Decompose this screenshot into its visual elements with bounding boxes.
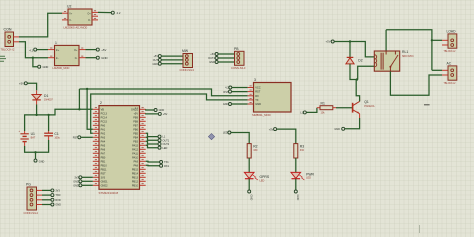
svg-text:+5V: +5V <box>326 40 331 44</box>
junction D2 branch <box>349 40 351 42</box>
svg-text:PB5: PB5 <box>133 132 138 135</box>
wire +5V terminal to D1 anode <box>27 83 36 90</box>
wire up to relay coil bottom <box>358 66 375 79</box>
svg-text:V-: V- <box>69 20 71 22</box>
wire LED terminal to R2 <box>231 133 249 144</box>
svg-text:VB: VB <box>101 108 105 111</box>
svg-text:1: 1 <box>55 41 57 45</box>
svg-text:PA15: PA15 <box>132 144 139 147</box>
svg-text:PA7: PA7 <box>101 152 106 155</box>
terminal OUT2 <box>158 143 161 146</box>
wire to AC pin1 <box>432 69 442 71</box>
svg-text:PB3: PB3 <box>133 140 138 143</box>
wire RST terminal to SIM800L <box>232 91 248 93</box>
svg-text:PB13: PB13 <box>132 176 139 179</box>
terminal GND at Q1 emitter <box>342 127 345 130</box>
svg-text:+5V: +5V <box>153 55 158 58</box>
junction battery node <box>35 114 37 116</box>
resistor R1 10k <box>317 107 320 109</box>
svg-text:GND: GND <box>209 61 215 64</box>
wire PG pin to RXD terminal <box>42 199 51 201</box>
svg-text:RXD: RXD <box>55 199 60 202</box>
wire GND terminal to SIM800L <box>232 103 248 105</box>
svg-text:GND1: GND1 <box>101 180 109 183</box>
svg-text:GND: GND <box>43 65 49 69</box>
wire PG pin to TXD terminal <box>42 194 51 196</box>
wire up from VB net to UART loop <box>78 89 80 109</box>
wire +5V rail to relay coil top <box>334 42 374 57</box>
wire node to C1 and MCU VB <box>37 109 93 115</box>
svg-text:+5V: +5V <box>133 112 138 115</box>
svg-text:TX1: TX1 <box>164 161 169 164</box>
no-connect dash <box>424 104 430 106</box>
terminal TX1 <box>160 161 163 164</box>
svg-text:PB: PB <box>234 47 239 51</box>
svg-text:GND: GND <box>223 103 229 106</box>
microcontroller U3 STM32F103C8 <box>93 108 99 110</box>
wire MCU PA9 to SIM800L TX <box>91 94 248 133</box>
svg-text:+5V: +5V <box>210 53 215 56</box>
junction C1 branch <box>47 114 49 116</box>
terminal +5V regulator output <box>96 48 99 51</box>
svg-text:+5V: +5V <box>269 128 274 131</box>
svg-text:3V3: 3V3 <box>101 176 106 179</box>
svg-text:LM2596_MOD: LM2596_MOD <box>53 66 70 70</box>
svg-text:3V3: 3V3 <box>55 190 60 193</box>
svg-text:PA1: PA1 <box>101 128 106 131</box>
svg-text:PB14: PB14 <box>132 172 139 175</box>
wire GND terminal to MCU <box>82 184 93 186</box>
svg-text:U2: U2 <box>67 4 71 8</box>
svg-text:PA8: PA8 <box>133 164 138 167</box>
svg-text:D2: D2 <box>358 59 362 63</box>
terminal GND regulator output <box>96 56 99 59</box>
svg-text:RL1: RL1 <box>402 50 408 54</box>
svg-text:OUT1: OUT1 <box>163 139 170 142</box>
wire CON pin2 to regulator In- <box>19 42 48 58</box>
svg-text:BAT: BAT <box>31 137 36 140</box>
terminal OUT1 <box>158 139 161 142</box>
svg-text:PB1: PB1 <box>101 160 106 163</box>
svg-text:PB4: PB4 <box>133 136 138 139</box>
svg-text:PB15: PB15 <box>132 168 139 171</box>
svg-text:LED: LED <box>306 177 311 180</box>
wire MCU to LED terminal <box>146 145 158 147</box>
wire MCU to TX1 terminal <box>146 160 160 163</box>
svg-text:GND: GND <box>152 63 158 66</box>
svg-text:PB10: PB10 <box>132 184 139 187</box>
svg-text:PA5: PA5 <box>101 144 106 147</box>
svg-text:GND: GND <box>101 56 107 60</box>
relay RL1 SRD-5VDC <box>374 51 399 71</box>
transistor Q1 PN2222A <box>352 103 354 113</box>
svg-text:TBLOCK-I2: TBLOCK-I2 <box>444 83 457 85</box>
svg-text:PB8: PB8 <box>133 120 138 123</box>
wire junction down to GND terminal <box>33 58 38 67</box>
wire PG pin to GND terminal <box>42 204 51 206</box>
LED PWR <box>291 172 301 178</box>
svg-text:TX: TX <box>255 98 259 102</box>
terminal LED <box>158 146 161 149</box>
wire D2 anode Z-route <box>350 64 358 80</box>
battery U1 <box>24 131 26 134</box>
wire GPRS LED to GND terminal <box>248 179 250 190</box>
svg-text:PA3: PA3 <box>101 136 106 139</box>
wire Q1 emitter to GND terminal <box>345 118 360 129</box>
svg-text:GND: GND <box>55 204 61 207</box>
svg-text:RX1: RX1 <box>164 165 169 168</box>
terminal GND of PG <box>51 203 54 206</box>
svg-text:3: 3 <box>254 78 256 82</box>
wire PG pin to 3V3 terminal <box>42 189 51 191</box>
terminal L1 <box>158 135 161 138</box>
wire 4.2 terminal to VCC <box>232 87 248 89</box>
svg-text:R1: R1 <box>321 101 325 105</box>
svg-text:LM2596S-ADJ-MOD: LM2596S-ADJ-MOD <box>64 26 88 30</box>
wire regulator O+ to +5V terminal <box>86 49 97 51</box>
svg-text:PB0: PB0 <box>101 156 106 159</box>
terminal GND near regulator input <box>38 65 41 68</box>
wire MCU to GND terminal <box>146 108 154 111</box>
wire node to battery U1 <box>25 115 37 131</box>
svg-text:C1: C1 <box>54 132 58 136</box>
svg-text:MW: MW <box>182 49 189 53</box>
wire 4.2 terminal to In+ <box>37 49 48 51</box>
svg-text:OUT2: OUT2 <box>163 143 170 146</box>
svg-text:330: 330 <box>253 149 258 152</box>
svg-text:+5V: +5V <box>101 48 106 52</box>
svg-text:Q1: Q1 <box>364 100 369 104</box>
svg-text:O-: O- <box>88 20 91 22</box>
wire relay pole to LOAD <box>386 30 432 71</box>
svg-text:OUT: OUT <box>153 59 159 62</box>
svg-text:PA9: PA9 <box>133 160 138 163</box>
wire GND terminal to MCU <box>82 180 93 182</box>
junction coil/collector node <box>356 78 358 80</box>
svg-text:PC14: PC14 <box>101 116 108 119</box>
wire R2 to GPRS LED <box>248 158 250 172</box>
svg-text:4.2: 4.2 <box>29 48 33 52</box>
svg-text:GND: GND <box>73 180 79 183</box>
terminal block CON (TBLOCK-I2) <box>5 32 14 47</box>
svg-text:VCC: VCC <box>255 86 261 90</box>
terminal 3V3 of PG <box>51 189 54 192</box>
sheet edge marks <box>0 55 5 57</box>
svg-text:GND: GND <box>73 184 79 187</box>
wire regulator O- to GND terminal <box>86 57 97 59</box>
svg-text:SIM800L_MOD: SIM800L_MOD <box>252 113 271 117</box>
wire R1 to Q1 base <box>336 107 352 109</box>
module 3 SIM800L_MOD <box>248 87 254 89</box>
resistor R2 330 <box>247 144 251 158</box>
svg-text:PA12: PA12 <box>132 148 139 151</box>
svg-text:LED: LED <box>260 179 265 182</box>
module U2 4.2V converter <box>62 12 68 14</box>
svg-text:PB6: PB6 <box>133 128 138 131</box>
wire 3V3 terminal to MCU <box>82 176 93 178</box>
regulator module 1 LM2596_MOD <box>48 49 55 51</box>
svg-text:RX: RX <box>255 94 259 98</box>
svg-text:2: 2 <box>100 101 102 105</box>
svg-text:PB10: PB10 <box>101 164 108 167</box>
wire down to D2 cathode <box>349 42 351 58</box>
wire down to Q1 collector <box>356 80 359 102</box>
svg-text:PA6: PA6 <box>101 148 106 151</box>
wire MCU to +5V terminal <box>146 112 159 115</box>
LED GPRS <box>244 172 254 178</box>
wire branch to LOAD pin1 <box>432 39 442 41</box>
svg-text:330: 330 <box>300 149 305 152</box>
wire CON pin1 to U2 input <box>19 13 62 37</box>
svg-text:STM32F103C8: STM32F103C8 <box>99 191 119 195</box>
cursor tick <box>419 225 421 233</box>
svg-text:LOAD: LOAD <box>447 30 457 34</box>
svg-text:CON: CON <box>4 28 12 32</box>
resistor R3 330 <box>294 144 298 158</box>
svg-text:U1: U1 <box>31 132 35 136</box>
svg-text:O-: O- <box>75 58 78 60</box>
junction on In- net <box>32 57 34 59</box>
junction LOAD branch <box>431 39 433 41</box>
terminal +5V at MCU <box>158 112 161 115</box>
terminal GND at MCU <box>154 109 157 112</box>
junction UART net with VB riser <box>86 88 88 90</box>
wire relay pole pin riser <box>385 30 387 51</box>
origin marker <box>208 133 214 139</box>
wire relay NO contact to AC pin2 <box>390 71 442 95</box>
svg-text:LED: LED <box>223 132 228 135</box>
svg-text:PA0: PA0 <box>101 124 106 127</box>
wire MCU to RX1 terminal <box>146 164 160 166</box>
terminal 4.2 at U2 output <box>111 11 114 14</box>
svg-text:PA4: PA4 <box>101 140 106 143</box>
svg-text:TBLOCK-I2: TBLOCK-I2 <box>1 48 15 52</box>
svg-text:100u: 100u <box>54 137 60 140</box>
wire MCU to OUT1 terminal <box>146 137 158 140</box>
svg-text:PG: PG <box>26 183 31 187</box>
wire U2 output to 4.2 terminal <box>98 11 111 13</box>
wire battery and C1 to GND <box>25 140 49 152</box>
svg-text:RST: RST <box>223 91 228 94</box>
svg-text:PB7: PB7 <box>133 124 138 127</box>
svg-text:In-: In- <box>56 58 59 60</box>
svg-text:PN2222A: PN2222A <box>364 105 375 108</box>
terminal GND below GPRS LED <box>248 190 251 193</box>
svg-text:PC13: PC13 <box>101 112 108 115</box>
svg-text:RST: RST <box>101 172 106 175</box>
wire L1 terminal to R1 <box>306 108 317 113</box>
capacitor C1 <box>48 131 50 133</box>
wire down to C1 <box>48 115 50 131</box>
svg-text:GND: GND <box>255 102 261 106</box>
svg-text:D1: D1 <box>44 94 48 98</box>
svg-text:PA11: PA11 <box>132 152 138 155</box>
svg-text:GND: GND <box>296 195 300 201</box>
svg-text:R3: R3 <box>300 145 304 149</box>
terminal GND below battery <box>34 159 37 162</box>
wire MCU to OUT2 terminal <box>146 141 158 144</box>
svg-text:TBLOCK-I2: TBLOCK-I2 <box>444 51 457 53</box>
svg-text:RST: RST <box>73 137 78 140</box>
diode D2 flyback <box>347 56 354 58</box>
svg-text:PA10: PA10 <box>132 156 139 159</box>
connector PG CONN-SIL4 <box>27 187 37 210</box>
wire MCU PA10 to SIM800L RX <box>87 89 248 129</box>
wire down to GND terminal <box>35 152 37 159</box>
svg-text:PB12: PB12 <box>132 180 139 183</box>
svg-text:PB11: PB11 <box>101 168 108 171</box>
wire +5V terminal to R3 <box>277 129 296 144</box>
junction GND drop <box>34 151 36 153</box>
svg-text:CONN-SIL3: CONN-SIL3 <box>180 68 195 72</box>
svg-text:R2: R2 <box>253 145 257 149</box>
junction MCU VB wire <box>78 108 80 110</box>
terminal RX1 <box>160 164 163 167</box>
svg-text:CONN-SIL4: CONN-SIL4 <box>24 211 39 215</box>
svg-text:AC: AC <box>447 62 452 66</box>
terminal RXD of PG <box>51 198 54 201</box>
svg-text:PC15: PC15 <box>101 120 108 123</box>
svg-text:4.2: 4.2 <box>117 11 121 15</box>
svg-text:GND: GND <box>39 160 45 163</box>
svg-text:1N4007: 1N4007 <box>44 99 53 102</box>
svg-text:GND: GND <box>334 128 340 131</box>
svg-text:TXD: TXD <box>55 194 60 197</box>
wire R3 to PWR LED <box>295 158 297 172</box>
wire MCU to L1 terminal <box>146 133 158 136</box>
wire RST terminal to MCU <box>81 136 93 138</box>
terminal GND below PWR LED <box>294 190 297 193</box>
wire PWR LED to GND terminal <box>295 179 297 190</box>
svg-text:PA2: PA2 <box>101 132 106 135</box>
wire D1 cathode down to battery node <box>36 105 38 115</box>
svg-text:SRD-5VDC: SRD-5VDC <box>402 56 414 58</box>
svg-text:CONN-SIL3: CONN-SIL3 <box>231 66 246 70</box>
svg-text:LED: LED <box>163 147 168 150</box>
svg-text:GND: GND <box>159 109 165 112</box>
terminal TXD of PG <box>51 194 54 197</box>
svg-text:+5V: +5V <box>19 82 24 86</box>
svg-text:GND2: GND2 <box>101 184 109 187</box>
svg-text:PB9: PB9 <box>133 116 138 119</box>
svg-text:OUT1: OUT1 <box>208 57 215 60</box>
svg-text:GND: GND <box>249 195 253 201</box>
svg-text:RST: RST <box>255 90 261 94</box>
diode D1 1N4007 <box>36 90 38 94</box>
svg-text:+5V: +5V <box>163 113 168 116</box>
